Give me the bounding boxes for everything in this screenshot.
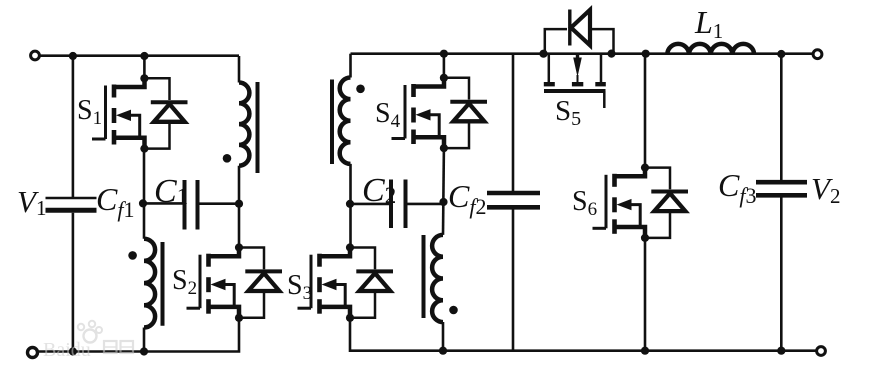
transistor Q S3 <box>298 248 394 318</box>
wire S6 source to bottom rail <box>644 238 647 351</box>
transistor Q S4 <box>392 78 488 148</box>
node S4 source <box>440 144 448 152</box>
wire S2 source to bottom rail <box>37 318 240 352</box>
node S6 bottom rail <box>641 347 649 355</box>
wire junction to C2 <box>350 203 390 206</box>
node L1 right / Cf3 top <box>777 50 785 58</box>
node Cf1 bottom rail <box>69 347 77 355</box>
core bar of winding C <box>161 242 165 326</box>
wire S4 drain to rail <box>443 54 446 78</box>
S5 gate bar <box>544 89 606 93</box>
wire top-left rail <box>40 54 240 57</box>
node S6 source <box>641 234 649 242</box>
core bar of winding D <box>422 235 426 318</box>
capacitor Cf1 <box>46 197 97 200</box>
terminal top-left <box>31 51 40 60</box>
transistor Q S2 <box>187 248 283 318</box>
wire S1 drain to rail <box>143 56 146 78</box>
polarity dot winding C <box>128 251 137 260</box>
svg-text:Baidu: Baidu <box>43 339 91 361</box>
wire S4 source down to winding D <box>442 148 445 235</box>
node S6 drain <box>641 164 649 172</box>
node C1 left junction <box>139 199 147 207</box>
watermark <box>43 321 133 361</box>
node C2 right junction <box>439 198 447 206</box>
node S3 source <box>346 314 354 322</box>
capacitor Cf3 <box>756 180 807 185</box>
winding D (transformer winding, bottom middle) <box>432 235 443 322</box>
node S2 drain <box>235 243 243 251</box>
node C1 right junction <box>235 200 243 208</box>
node C2 left junction <box>346 200 354 208</box>
terminal bottom-right <box>817 347 826 356</box>
node S1 source <box>140 145 148 153</box>
winding C (transformer winding, bottom left) <box>144 239 155 328</box>
wire C1 to winding A node <box>199 202 239 205</box>
wire Cf1 branch top <box>72 56 75 197</box>
inductor L1 <box>667 44 754 54</box>
wire winding A bottom <box>238 166 241 248</box>
top rail secondary <box>351 52 813 55</box>
wire S3 source to bottom rail <box>350 318 817 351</box>
node S4 top rail <box>440 50 448 58</box>
terminal bottom-left <box>28 348 38 358</box>
node S4 drain <box>440 74 448 82</box>
node S5 right <box>607 50 615 58</box>
node Cf1 top rail <box>69 52 77 60</box>
capacitor C1 <box>183 180 187 230</box>
node winding C bottom rail <box>140 347 148 355</box>
core bar of winding B <box>330 80 334 165</box>
capacitor Cf2 <box>487 191 540 196</box>
transistor Q S1 <box>92 78 188 148</box>
wire C2 to S4 chain <box>407 203 444 206</box>
terminal top-right <box>813 50 822 59</box>
wire Cf3 branch <box>780 54 783 181</box>
node S1 top rail <box>140 52 148 60</box>
node S3 drain <box>346 243 354 251</box>
wire S6 drain branch <box>644 54 647 168</box>
capacitor C2 <box>389 180 393 229</box>
S5 gate lead <box>603 91 606 108</box>
wire winding B bottom <box>349 164 352 248</box>
node S1 drain <box>140 74 148 82</box>
winding A (transformer winding, top left) <box>238 56 241 83</box>
diode above S5 <box>545 29 567 54</box>
polarity dot winding D <box>449 306 458 315</box>
S5 right contact <box>600 54 603 82</box>
polarity dot winding A <box>223 154 232 163</box>
node S6 top rail <box>642 50 650 58</box>
transistor Q S6 <box>593 168 689 238</box>
wire junction to C1 <box>143 202 183 205</box>
wire Cf2 branch <box>512 54 515 192</box>
S5 left contact <box>548 54 551 82</box>
node S5 left <box>539 50 547 58</box>
node winding D bottom rail <box>439 347 447 355</box>
wire S1 source down <box>143 149 146 239</box>
wire Cf1 bottom <box>72 213 75 352</box>
core bar of winding A <box>256 82 260 173</box>
polarity dot winding B <box>356 85 365 94</box>
winding B (transformer winding, top middle) <box>349 54 352 78</box>
node Cf3 bottom rail <box>777 347 785 355</box>
S5 body arrow <box>576 54 579 58</box>
node S2 source <box>235 314 243 322</box>
